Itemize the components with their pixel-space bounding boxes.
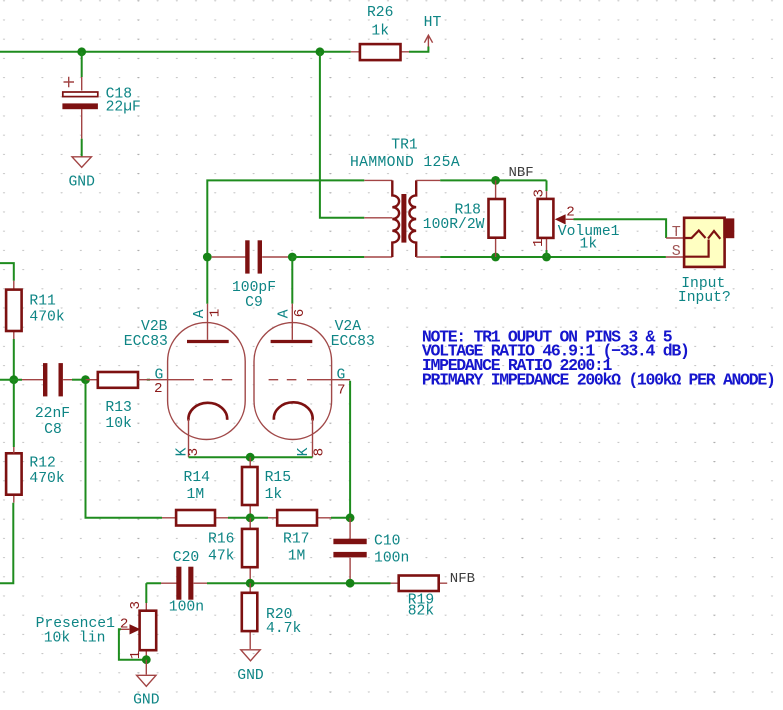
resistor R12 bbox=[6, 380, 65, 503]
svg-text:R16: R16 bbox=[208, 532, 234, 548]
wire R12 to left edge exit bbox=[0, 503, 13, 584]
triode V2A ECC83 bbox=[254, 304, 375, 458]
wire C18 to gnd bbox=[81, 139, 83, 157]
ground below C18 bbox=[68, 157, 95, 191]
node junction Presence pin1 bbox=[142, 655, 151, 664]
wire HT rail to transformer center tap bbox=[320, 52, 364, 218]
svg-text:T: T bbox=[672, 224, 681, 241]
svg-text:R26: R26 bbox=[367, 5, 393, 21]
svg-text:HT: HT bbox=[424, 15, 442, 31]
svg-text:2: 2 bbox=[154, 381, 163, 397]
potentiometer Presence1 bbox=[36, 601, 157, 660]
svg-text:3: 3 bbox=[186, 448, 202, 457]
svg-text:R15: R15 bbox=[265, 470, 291, 486]
capacitor C8 bbox=[22, 363, 72, 438]
svg-text:4.7k: 4.7k bbox=[266, 621, 301, 637]
svg-text:GND: GND bbox=[68, 174, 95, 190]
wire V2A anode column bbox=[291, 257, 293, 304]
resistor R11 bbox=[6, 281, 65, 376]
svg-text:8: 8 bbox=[312, 448, 328, 457]
resistor R16 bbox=[208, 518, 258, 583]
wire HT rail top bbox=[0, 51, 351, 53]
svg-text:R14: R14 bbox=[184, 470, 211, 486]
svg-text:A: A bbox=[277, 309, 293, 318]
svg-text:Presence1: Presence1 bbox=[36, 616, 116, 632]
svg-text:100R/2W: 100R/2W bbox=[423, 217, 485, 233]
svg-text:6: 6 bbox=[292, 309, 308, 318]
svg-text:1: 1 bbox=[208, 309, 224, 318]
svg-text:C10: C10 bbox=[374, 534, 400, 550]
svg-text:S: S bbox=[672, 243, 681, 260]
svg-text:1k: 1k bbox=[371, 23, 389, 39]
capacitor C9 bbox=[212, 240, 288, 311]
svg-text:NFB: NFB bbox=[450, 571, 475, 587]
svg-text:V2A: V2A bbox=[335, 319, 362, 335]
svg-text:470k: 470k bbox=[29, 471, 64, 487]
node junction V2B anode / C9 bbox=[203, 253, 212, 262]
svg-text:G: G bbox=[337, 367, 346, 383]
resistor R13 bbox=[86, 372, 139, 432]
svg-text:1: 1 bbox=[531, 238, 547, 247]
node junction C10 top / V2A grid bbox=[346, 513, 355, 522]
svg-text:3: 3 bbox=[128, 601, 144, 610]
resistor R18 bbox=[423, 180, 505, 257]
svg-text:ECC83: ECC83 bbox=[124, 334, 168, 350]
wire grid row from left edge bbox=[0, 379, 22, 381]
wire secondary bottom row bbox=[440, 256, 666, 258]
wire R13 to V2B grid bbox=[147, 379, 150, 381]
node junction R16/R20 bbox=[246, 579, 255, 588]
wire Presence to gnd bbox=[145, 660, 147, 675]
svg-text:Input?: Input? bbox=[678, 290, 731, 306]
svg-text:GND: GND bbox=[133, 693, 160, 709]
resistor R14 bbox=[162, 470, 228, 525]
connector J Input jack bbox=[672, 218, 735, 306]
wire Volume pin1 to bottom row bbox=[546, 250, 548, 257]
node junction C8 / R11 / R12 bbox=[9, 375, 18, 384]
resistor R26 bbox=[351, 5, 409, 60]
wire Volume wiper to jack T bbox=[574, 219, 667, 238]
svg-text:GND: GND bbox=[237, 668, 264, 684]
svg-text:7: 7 bbox=[337, 383, 346, 399]
node junction R18 bottom bbox=[491, 253, 500, 262]
wire secondary top to NBF bbox=[440, 179, 546, 181]
svg-text:100pF: 100pF bbox=[232, 280, 276, 296]
wire jack S lead bbox=[666, 256, 684, 258]
wire Presence wiper to pin1 bbox=[119, 629, 146, 659]
node junction HT rail right bbox=[316, 47, 325, 56]
svg-text:A: A bbox=[192, 309, 208, 318]
svg-text:3: 3 bbox=[532, 189, 548, 198]
svg-text:100n: 100n bbox=[169, 599, 204, 615]
svg-text:82k: 82k bbox=[408, 603, 435, 619]
svg-text:R17: R17 bbox=[283, 532, 309, 548]
svg-text:1M: 1M bbox=[288, 549, 306, 565]
wire R14 to node bbox=[228, 517, 250, 519]
svg-text:1M: 1M bbox=[187, 487, 205, 503]
wire C8 to R13 bbox=[72, 379, 86, 381]
label NBF bbox=[509, 165, 534, 181]
node junction cathodes / R15 bbox=[246, 453, 255, 462]
resistor R19 bbox=[391, 576, 448, 620]
node junction V2A anode / C9 bbox=[288, 253, 297, 262]
text NOTE block bbox=[422, 327, 775, 389]
potentiometer Volume1 bbox=[531, 189, 620, 252]
svg-text:2: 2 bbox=[120, 616, 129, 632]
svg-text:NBF: NBF bbox=[509, 165, 534, 181]
svg-text:47k: 47k bbox=[208, 549, 235, 565]
svg-text:22nF: 22nF bbox=[35, 406, 70, 422]
svg-text:R11: R11 bbox=[29, 294, 56, 310]
wire NFB row to Presence pin3 bbox=[145, 583, 147, 603]
wire left rail into R11 bbox=[0, 263, 14, 281]
label NFB bbox=[450, 571, 475, 587]
svg-text:22µF: 22µF bbox=[106, 100, 141, 116]
svg-text:R13: R13 bbox=[105, 400, 131, 416]
svg-text:R12: R12 bbox=[29, 455, 55, 471]
svg-text:C20: C20 bbox=[173, 550, 199, 566]
svg-text:ECC83: ECC83 bbox=[331, 334, 375, 350]
resistor R15 bbox=[242, 457, 291, 518]
node junction NBF bbox=[491, 176, 500, 185]
node junction C8 / R13 / feedback bbox=[81, 375, 90, 384]
wire feedback column C8 to R14 bbox=[86, 380, 163, 518]
wire C18 branch bbox=[81, 52, 83, 77]
resistor R17 bbox=[250, 510, 331, 565]
svg-text:1k: 1k bbox=[265, 487, 283, 503]
node junction R14/R15/R16/R17 bbox=[246, 513, 255, 522]
wire NFB row bbox=[146, 582, 390, 584]
svg-text:100n: 100n bbox=[374, 550, 409, 566]
power flag HT bbox=[424, 15, 442, 47]
node junction C10 bottom / R19 bbox=[346, 579, 355, 588]
wire jack T lead bbox=[666, 237, 684, 239]
node junction Volume bottom bbox=[542, 253, 551, 262]
svg-text:10k: 10k bbox=[105, 416, 132, 432]
svg-text:V2B: V2B bbox=[141, 319, 168, 335]
svg-text:470k: 470k bbox=[29, 309, 64, 325]
capacitor C10 bbox=[333, 518, 409, 583]
svg-text:10k lin: 10k lin bbox=[44, 631, 106, 647]
triode V2B ECC83 bbox=[124, 304, 245, 458]
wire V2A grid down bbox=[349, 381, 351, 518]
wire V2B anode column bbox=[207, 180, 364, 303]
svg-text:C9: C9 bbox=[245, 295, 263, 311]
svg-text:HAMMOND 125A: HAMMOND 125A bbox=[350, 155, 460, 171]
svg-text:1: 1 bbox=[128, 651, 144, 660]
wire R26 to HT bbox=[409, 47, 428, 52]
node junction HT rail left bbox=[77, 47, 86, 56]
svg-text:1k: 1k bbox=[580, 236, 598, 252]
wire C9 to transformer primary bottom bbox=[292, 256, 364, 258]
wire NBF to Volume pin3 bbox=[546, 180, 548, 191]
ground below R20 bbox=[237, 650, 264, 684]
svg-text:2: 2 bbox=[566, 204, 575, 220]
svg-text:C8: C8 bbox=[44, 422, 62, 438]
wire cathode row bbox=[189, 456, 313, 458]
wire R17 to node bbox=[331, 517, 350, 519]
capacitor C18 bbox=[62, 77, 140, 139]
ground below Presence1 bbox=[133, 675, 160, 708]
resistor R20 bbox=[242, 583, 302, 649]
svg-text:PRIMARY IMPEDANCE 200kΩ (100kΩ: PRIMARY IMPEDANCE 200kΩ (100kΩ PER ANODE… bbox=[422, 370, 775, 389]
capacitor C20 bbox=[161, 550, 207, 615]
svg-text:TR1: TR1 bbox=[391, 138, 418, 154]
svg-text:K: K bbox=[296, 447, 312, 456]
transformer TR1 HAMMOND 125A bbox=[350, 138, 460, 257]
